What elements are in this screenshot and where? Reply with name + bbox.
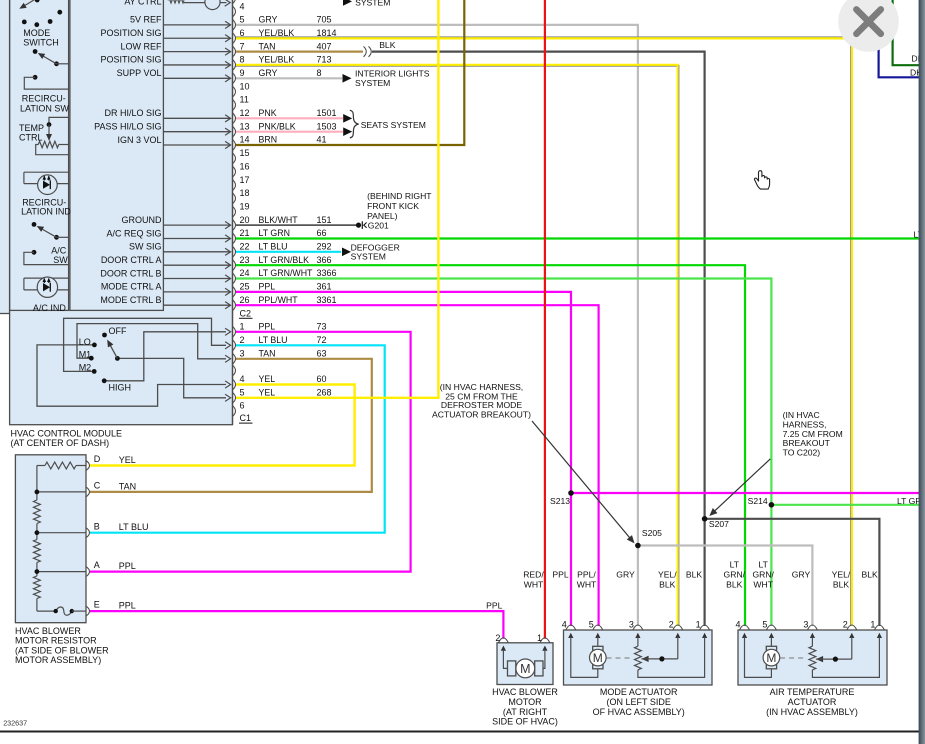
svg-text:M: M: [593, 651, 603, 665]
wire GRY S206 branch: [638, 546, 813, 627]
mode switch symbol: [22, 0, 38, 8]
svg-text:24: 24: [240, 268, 250, 278]
close button: [838, 0, 899, 52]
air temp actuator motor: [740, 625, 750, 630]
signal line DOOR CTRL B pin 24: [163, 278, 230, 280]
svg-text:8: 8: [240, 55, 245, 65]
svg-text:2: 2: [240, 335, 245, 345]
svg-text:LT GRN/WHT: LT GRN/WHT: [259, 268, 314, 278]
svg-text:ACTUATOR BREAKOUT): ACTUATOR BREAKOUT): [432, 409, 531, 419]
svg-text:YEL: YEL: [259, 374, 276, 384]
signal line SW SIG pin 22: [163, 251, 230, 253]
svg-text:WHT: WHT: [753, 579, 773, 589]
svg-text:DOOR CTRL B: DOOR CTRL B: [100, 268, 161, 278]
svg-text:268: 268: [317, 388, 332, 398]
svg-text:GRN/: GRN/: [724, 570, 746, 580]
svg-text:2: 2: [669, 620, 674, 630]
dashed link: [780, 657, 804, 659]
signal line DR HI/LO SIG pin 12: [163, 117, 230, 119]
blower switch lever: [108, 342, 117, 359]
svg-text:SW: SW: [53, 255, 68, 265]
svg-text:PNK: PNK: [259, 108, 277, 118]
HVAC control module box: [10, 0, 233, 425]
svg-text:41: 41: [317, 135, 327, 145]
bottom border line: [0, 731, 925, 733]
wire PPL/WHT 3361: [235, 305, 599, 626]
wire BLK S207 branch: [705, 519, 880, 626]
svg-text:YEL: YEL: [119, 455, 136, 465]
svg-text:PPL: PPL: [552, 570, 568, 580]
HVAC blower motor box: [497, 643, 553, 685]
svg-text:BLK: BLK: [659, 579, 676, 589]
svg-text:AY CTRL: AY CTRL: [124, 0, 161, 7]
wire GRY 705: [235, 25, 638, 626]
svg-text:LOW REF: LOW REF: [120, 41, 162, 51]
svg-text:SYSTEM: SYSTEM: [351, 251, 386, 261]
svg-text:1501: 1501: [317, 108, 337, 118]
svg-text:YEL/: YEL/: [658, 570, 677, 580]
svg-text:HIGH: HIGH: [109, 382, 132, 392]
svg-text:17: 17: [240, 175, 250, 185]
svg-text:A/C IND: A/C IND: [33, 303, 67, 313]
signal line DOOR CTRL A pin 23: [163, 264, 230, 266]
cut-off resistor squiggle: [168, 0, 184, 3]
svg-text:GRY: GRY: [792, 570, 811, 580]
wire LO to pin4: [37, 345, 226, 406]
svg-text:SIDE OF HVAC): SIDE OF HVAC): [492, 717, 558, 727]
wire BLK (after splice): [372, 52, 705, 626]
svg-text:SW SIG: SW SIG: [129, 242, 162, 252]
wire GRY 8: [235, 77, 342, 79]
svg-text:BRN: BRN: [259, 135, 278, 145]
left switch panel box: [10, 0, 69, 310]
svg-text:INTERIOR LIGHTS: INTERIOR LIGHTS: [355, 68, 430, 78]
signal line POSITION SIG pin 6: [163, 37, 230, 39]
svg-text:361: 361: [317, 282, 332, 292]
svg-text:LATION IND: LATION IND: [21, 207, 71, 217]
svg-text:WHT: WHT: [577, 579, 597, 589]
svg-text:GRN/: GRN/: [752, 570, 774, 580]
svg-text:D: D: [94, 454, 101, 464]
wire common to pin5: [117, 358, 226, 397]
wire BRN 41: [235, 0, 464, 145]
signal line LOW REF pin 7: [163, 51, 230, 53]
A/C indicator LED: [24, 277, 69, 279]
mode actuator motor: [566, 625, 576, 630]
svg-text:705: 705: [317, 15, 332, 25]
svg-text:A/C: A/C: [51, 245, 67, 255]
svg-text:HVAC CONTROL MODULE: HVAC CONTROL MODULE: [11, 428, 123, 438]
air temp wiper: [816, 656, 823, 662]
svg-text:(IN HVAC ASSEMBLY): (IN HVAC ASSEMBLY): [766, 707, 858, 717]
svg-text:LT BLU: LT BLU: [119, 522, 149, 532]
svg-text:HVAC BLOWER: HVAC BLOWER: [492, 687, 558, 697]
svg-text:1503: 1503: [317, 121, 337, 131]
svg-text:66: 66: [317, 228, 327, 238]
svg-text:(AT CENTER OF DASH): (AT CENTER OF DASH): [11, 438, 110, 448]
wire BLK/WHT 151: [235, 224, 356, 226]
wire LT GRN 66: [235, 237, 925, 239]
module background boxes: [0, 0, 10, 314]
signal line PASS HI/LO SIG pin 13: [163, 131, 230, 133]
svg-text:TAN: TAN: [119, 481, 136, 491]
wire YEL 268: [235, 0, 438, 398]
svg-text:BLK: BLK: [379, 40, 396, 50]
svg-text:407: 407: [317, 41, 332, 51]
splice S207: [702, 516, 708, 522]
svg-text:TAN: TAN: [259, 41, 276, 51]
svg-text:OF HVAC ASSEMBLY): OF HVAC ASSEMBLY): [593, 707, 685, 717]
svg-text:YEL/BLK: YEL/BLK: [259, 55, 295, 65]
wire PPL 361: [235, 292, 571, 626]
svg-text:GRY: GRY: [259, 68, 278, 78]
svg-text:G201: G201: [368, 221, 389, 231]
svg-text:M1: M1: [79, 349, 92, 359]
svg-text:10: 10: [240, 81, 250, 91]
svg-text:4: 4: [562, 620, 567, 630]
wire PPL S213 branch: [571, 492, 925, 494]
A/C switch contact: [32, 250, 37, 255]
wire TAN 407: [235, 50, 363, 52]
svg-text:8: 8: [317, 68, 322, 78]
svg-text:LT: LT: [730, 560, 740, 570]
svg-text:YEL/BLK: YEL/BLK: [259, 28, 295, 38]
signal line A/C REQ SIG pin 21: [163, 237, 230, 239]
wire RED/WHT: [544, 0, 546, 639]
mouse cursor: [754, 171, 769, 189]
scrollbar: [919, 0, 925, 744]
mode wiper: [641, 656, 648, 662]
svg-text:25: 25: [240, 282, 250, 292]
svg-text:BLK: BLK: [726, 579, 743, 589]
svg-text:PPL: PPL: [119, 561, 136, 571]
wire DK GRN: [893, 0, 925, 65]
wire LT BLU 72: [90, 345, 385, 532]
wire LT BLU 292: [235, 251, 341, 253]
wire PPL E to blower: [90, 611, 503, 639]
wire M1 to pin3: [77, 324, 226, 359]
pin label box: [70, 0, 163, 310]
svg-text:713: 713: [317, 55, 332, 65]
splice symbol: [364, 46, 367, 56]
svg-text:CTRL: CTRL: [19, 133, 43, 143]
signal line SUPP VOL pin 9: [163, 77, 230, 79]
svg-text:19: 19: [240, 201, 250, 211]
svg-text:SUPP VOL: SUPP VOL: [117, 68, 162, 78]
mode actuator potentiometer: [637, 637, 639, 646]
svg-text:5: 5: [589, 620, 594, 630]
svg-text:C1: C1: [240, 413, 252, 423]
C2 pin arcs and labels: [233, 0, 236, 4]
svg-text:18: 18: [240, 188, 250, 198]
wire HIGH to pin1: [104, 332, 226, 381]
svg-text:A: A: [94, 560, 100, 570]
recirculation switch lever: [33, 49, 38, 54]
wire DK BLU: [879, 0, 925, 77]
svg-text:A/C REQ SIG: A/C REQ SIG: [106, 228, 161, 238]
mode actuator box: [564, 630, 713, 685]
svg-text:BLK/WHT: BLK/WHT: [259, 215, 299, 225]
svg-text:73: 73: [317, 322, 327, 332]
wire M2 to pin2: [64, 318, 226, 371]
svg-text:13: 13: [240, 121, 250, 131]
svg-text:72: 72: [317, 335, 327, 345]
svg-text:S214: S214: [748, 496, 768, 506]
svg-text:26: 26: [240, 295, 250, 305]
svg-text:M: M: [766, 651, 776, 665]
cut-off indicator circle: [184, 2, 205, 4]
svg-text:(BEHIND RIGHT: (BEHIND RIGHT: [367, 191, 432, 201]
signal line POSITION SIG pin 8: [163, 64, 230, 66]
svg-text:4: 4: [240, 374, 245, 384]
svg-text:WHT: WHT: [524, 579, 544, 589]
svg-text:PPL: PPL: [119, 601, 136, 611]
svg-text:C2: C2: [240, 308, 252, 318]
svg-text:11: 11: [240, 95, 249, 105]
signal line MODE CTRL A pin 25: [163, 291, 230, 293]
svg-text:15: 15: [240, 148, 250, 158]
svg-text:5: 5: [240, 388, 245, 398]
svg-text:(AT SIDE OF BLOWER: (AT SIDE OF BLOWER: [15, 645, 109, 655]
wire YEL/BLK 713: [235, 65, 678, 626]
svg-text:MODE ACTUATOR: MODE ACTUATOR: [600, 687, 678, 697]
svg-text:TAN: TAN: [259, 349, 276, 359]
svg-text:POSITION SIG: POSITION SIG: [100, 55, 161, 65]
svg-text:PASS HI/LO SIG: PASS HI/LO SIG: [94, 121, 161, 131]
resistor network: [45, 462, 76, 469]
svg-text:GROUND: GROUND: [122, 215, 162, 225]
svg-text:S205: S205: [642, 528, 662, 538]
svg-text:5V REF: 5V REF: [130, 15, 162, 25]
svg-text:1: 1: [870, 620, 875, 630]
svg-text:5: 5: [762, 620, 767, 630]
svg-text:4: 4: [735, 620, 740, 630]
svg-text:PPL: PPL: [486, 601, 502, 611]
recirculation indicator LED: [24, 171, 69, 173]
svg-text:3361: 3361: [317, 295, 337, 305]
svg-text:SEATS SYSTEM: SEATS SYSTEM: [361, 120, 426, 130]
svg-text:151: 151: [317, 215, 332, 225]
svg-text:9: 9: [240, 68, 245, 78]
svg-text:366: 366: [317, 255, 332, 265]
svg-text:2: 2: [843, 620, 848, 630]
svg-text:OFF: OFF: [109, 326, 127, 336]
wire PNK 1501: [235, 117, 343, 119]
svg-text:12: 12: [240, 108, 250, 118]
svg-text:3: 3: [803, 620, 808, 630]
svg-text:3366: 3366: [317, 268, 337, 278]
svg-text:LT GRN/BLK: LT GRN/BLK: [259, 255, 310, 265]
svg-text:BLK: BLK: [861, 570, 878, 580]
svg-text:FRONT KICK: FRONT KICK: [367, 201, 419, 211]
svg-text:C: C: [94, 481, 101, 491]
svg-text:MOTOR ASSEMBLY): MOTOR ASSEMBLY): [15, 655, 101, 665]
svg-text:RED/: RED/: [523, 570, 544, 580]
svg-text:(ON LEFT SIDE: (ON LEFT SIDE: [607, 697, 671, 707]
svg-text:M2: M2: [79, 362, 92, 372]
splice S214: [769, 502, 775, 508]
svg-text:S213: S213: [550, 496, 570, 506]
svg-text:2: 2: [495, 633, 500, 643]
svg-text:LT GRN: LT GRN: [259, 228, 290, 238]
wire TAN 63: [90, 359, 372, 492]
svg-text:RECIRCU-: RECIRCU-: [22, 94, 66, 104]
air temperature actuator box: [738, 630, 887, 685]
svg-text:MODE CTRL B: MODE CTRL B: [100, 295, 161, 305]
svg-text:M: M: [520, 662, 530, 676]
connector C2/C1 line: [232, 0, 234, 425]
svg-text:YEL: YEL: [259, 388, 276, 398]
cut-off system annotation: [343, 0, 352, 6]
svg-text:LT BLU: LT BLU: [259, 242, 288, 252]
svg-text:HVAC BLOWER: HVAC BLOWER: [15, 626, 81, 636]
signal line IGN 3 VOL pin 14: [163, 144, 230, 146]
resistor pin arcs: [86, 461, 90, 471]
dashed link: [607, 657, 631, 659]
wire YEL 60: [90, 385, 355, 466]
svg-text:63: 63: [317, 349, 327, 359]
svg-text:DOOR CTRL A: DOOR CTRL A: [101, 255, 162, 265]
svg-text:SYSTEM: SYSTEM: [355, 0, 390, 7]
svg-text:BLK: BLK: [686, 570, 703, 580]
splice S213: [568, 490, 574, 496]
svg-text:60: 60: [317, 374, 327, 384]
svg-text:1: 1: [696, 620, 701, 630]
svg-text:PPL/: PPL/: [577, 570, 596, 580]
svg-text:ACTUATOR: ACTUATOR: [788, 697, 837, 707]
svg-text:PPL/WHT: PPL/WHT: [259, 295, 299, 305]
svg-text:6: 6: [240, 400, 245, 410]
svg-text:B: B: [94, 521, 100, 531]
svg-text:SYSTEM: SYSTEM: [355, 78, 390, 88]
signal line 5V REF pin 5: [163, 24, 230, 26]
svg-text:SWITCH: SWITCH: [23, 38, 59, 48]
svg-text:GRY: GRY: [616, 570, 635, 580]
svg-text:20: 20: [240, 215, 250, 225]
air temp potentiometer: [811, 637, 813, 646]
fusible link E: [37, 610, 56, 612]
svg-text:23: 23: [240, 255, 250, 265]
C1 pin arcs and labels: [233, 326, 236, 337]
blower resistor box: [15, 455, 86, 623]
wire PNK/BLK 1503: [235, 131, 343, 133]
svg-text:4: 4: [240, 1, 245, 11]
svg-text:1: 1: [240, 322, 245, 332]
svg-text:AIR TEMPERATURE: AIR TEMPERATURE: [770, 687, 855, 697]
svg-text:MOTOR: MOTOR: [508, 697, 542, 707]
wire YEL/BLK 1814: [235, 38, 852, 626]
svg-text:3: 3: [240, 349, 245, 359]
svg-text:TEMP: TEMP: [19, 123, 44, 133]
svg-text:GRY: GRY: [259, 15, 278, 25]
svg-text:MODE CTRL A: MODE CTRL A: [101, 282, 162, 292]
svg-text:LT: LT: [759, 560, 769, 570]
svg-text:MOTOR RESISTOR: MOTOR RESISTOR: [15, 636, 97, 646]
blower motor symbol: [498, 638, 508, 643]
recirculation switch contact: [33, 75, 38, 80]
svg-text:22: 22: [240, 242, 250, 252]
wire LT GRN/WHT 3366: [235, 279, 771, 626]
svg-text:14: 14: [240, 135, 250, 145]
seats system brace: [350, 110, 359, 138]
svg-text:LO: LO: [79, 337, 91, 347]
wire LT GRN/BLK 366: [235, 265, 745, 626]
A/C switch lever: [32, 222, 37, 227]
svg-text:232637: 232637: [3, 719, 27, 728]
svg-text:3: 3: [629, 620, 634, 630]
svg-text:21: 21: [240, 228, 250, 238]
svg-text:7: 7: [240, 41, 245, 51]
svg-text:DR HI/LO SIG: DR HI/LO SIG: [104, 108, 161, 118]
temp ctrl potentiometer: [49, 117, 69, 124]
svg-text:(AT RIGHT: (AT RIGHT: [503, 707, 548, 717]
wire PPL 73: [90, 332, 411, 572]
signal line MODE CTRL B pin 26: [163, 304, 230, 306]
ground G201: [356, 223, 361, 228]
svg-text:S207: S207: [709, 519, 729, 529]
svg-text:292: 292: [317, 242, 332, 252]
wire LT GRN/WHT S214 branch: [771, 504, 925, 506]
svg-text:IGN 3 VOL: IGN 3 VOL: [117, 135, 161, 145]
svg-text:TO C202): TO C202): [783, 448, 821, 458]
svg-text:16: 16: [240, 161, 250, 171]
svg-text:E: E: [94, 600, 100, 610]
blower switch contacts: [102, 333, 107, 338]
splice S205: [635, 543, 641, 549]
svg-text:POSITION SIG: POSITION SIG: [100, 28, 161, 38]
svg-text:PPL: PPL: [259, 322, 276, 332]
svg-text:5: 5: [240, 15, 245, 25]
svg-text:1: 1: [537, 633, 542, 643]
svg-text:LATION SW: LATION SW: [20, 104, 69, 114]
svg-text:LT BLU: LT BLU: [259, 335, 288, 345]
svg-text:BLK: BLK: [833, 579, 850, 589]
svg-text:YEL/: YEL/: [832, 570, 851, 580]
svg-text:PPL: PPL: [259, 282, 276, 292]
svg-text:PNK/BLK: PNK/BLK: [259, 121, 296, 131]
svg-text:1814: 1814: [317, 28, 337, 38]
signal line GROUND pin 20: [163, 224, 230, 226]
svg-text:6: 6: [240, 28, 245, 38]
